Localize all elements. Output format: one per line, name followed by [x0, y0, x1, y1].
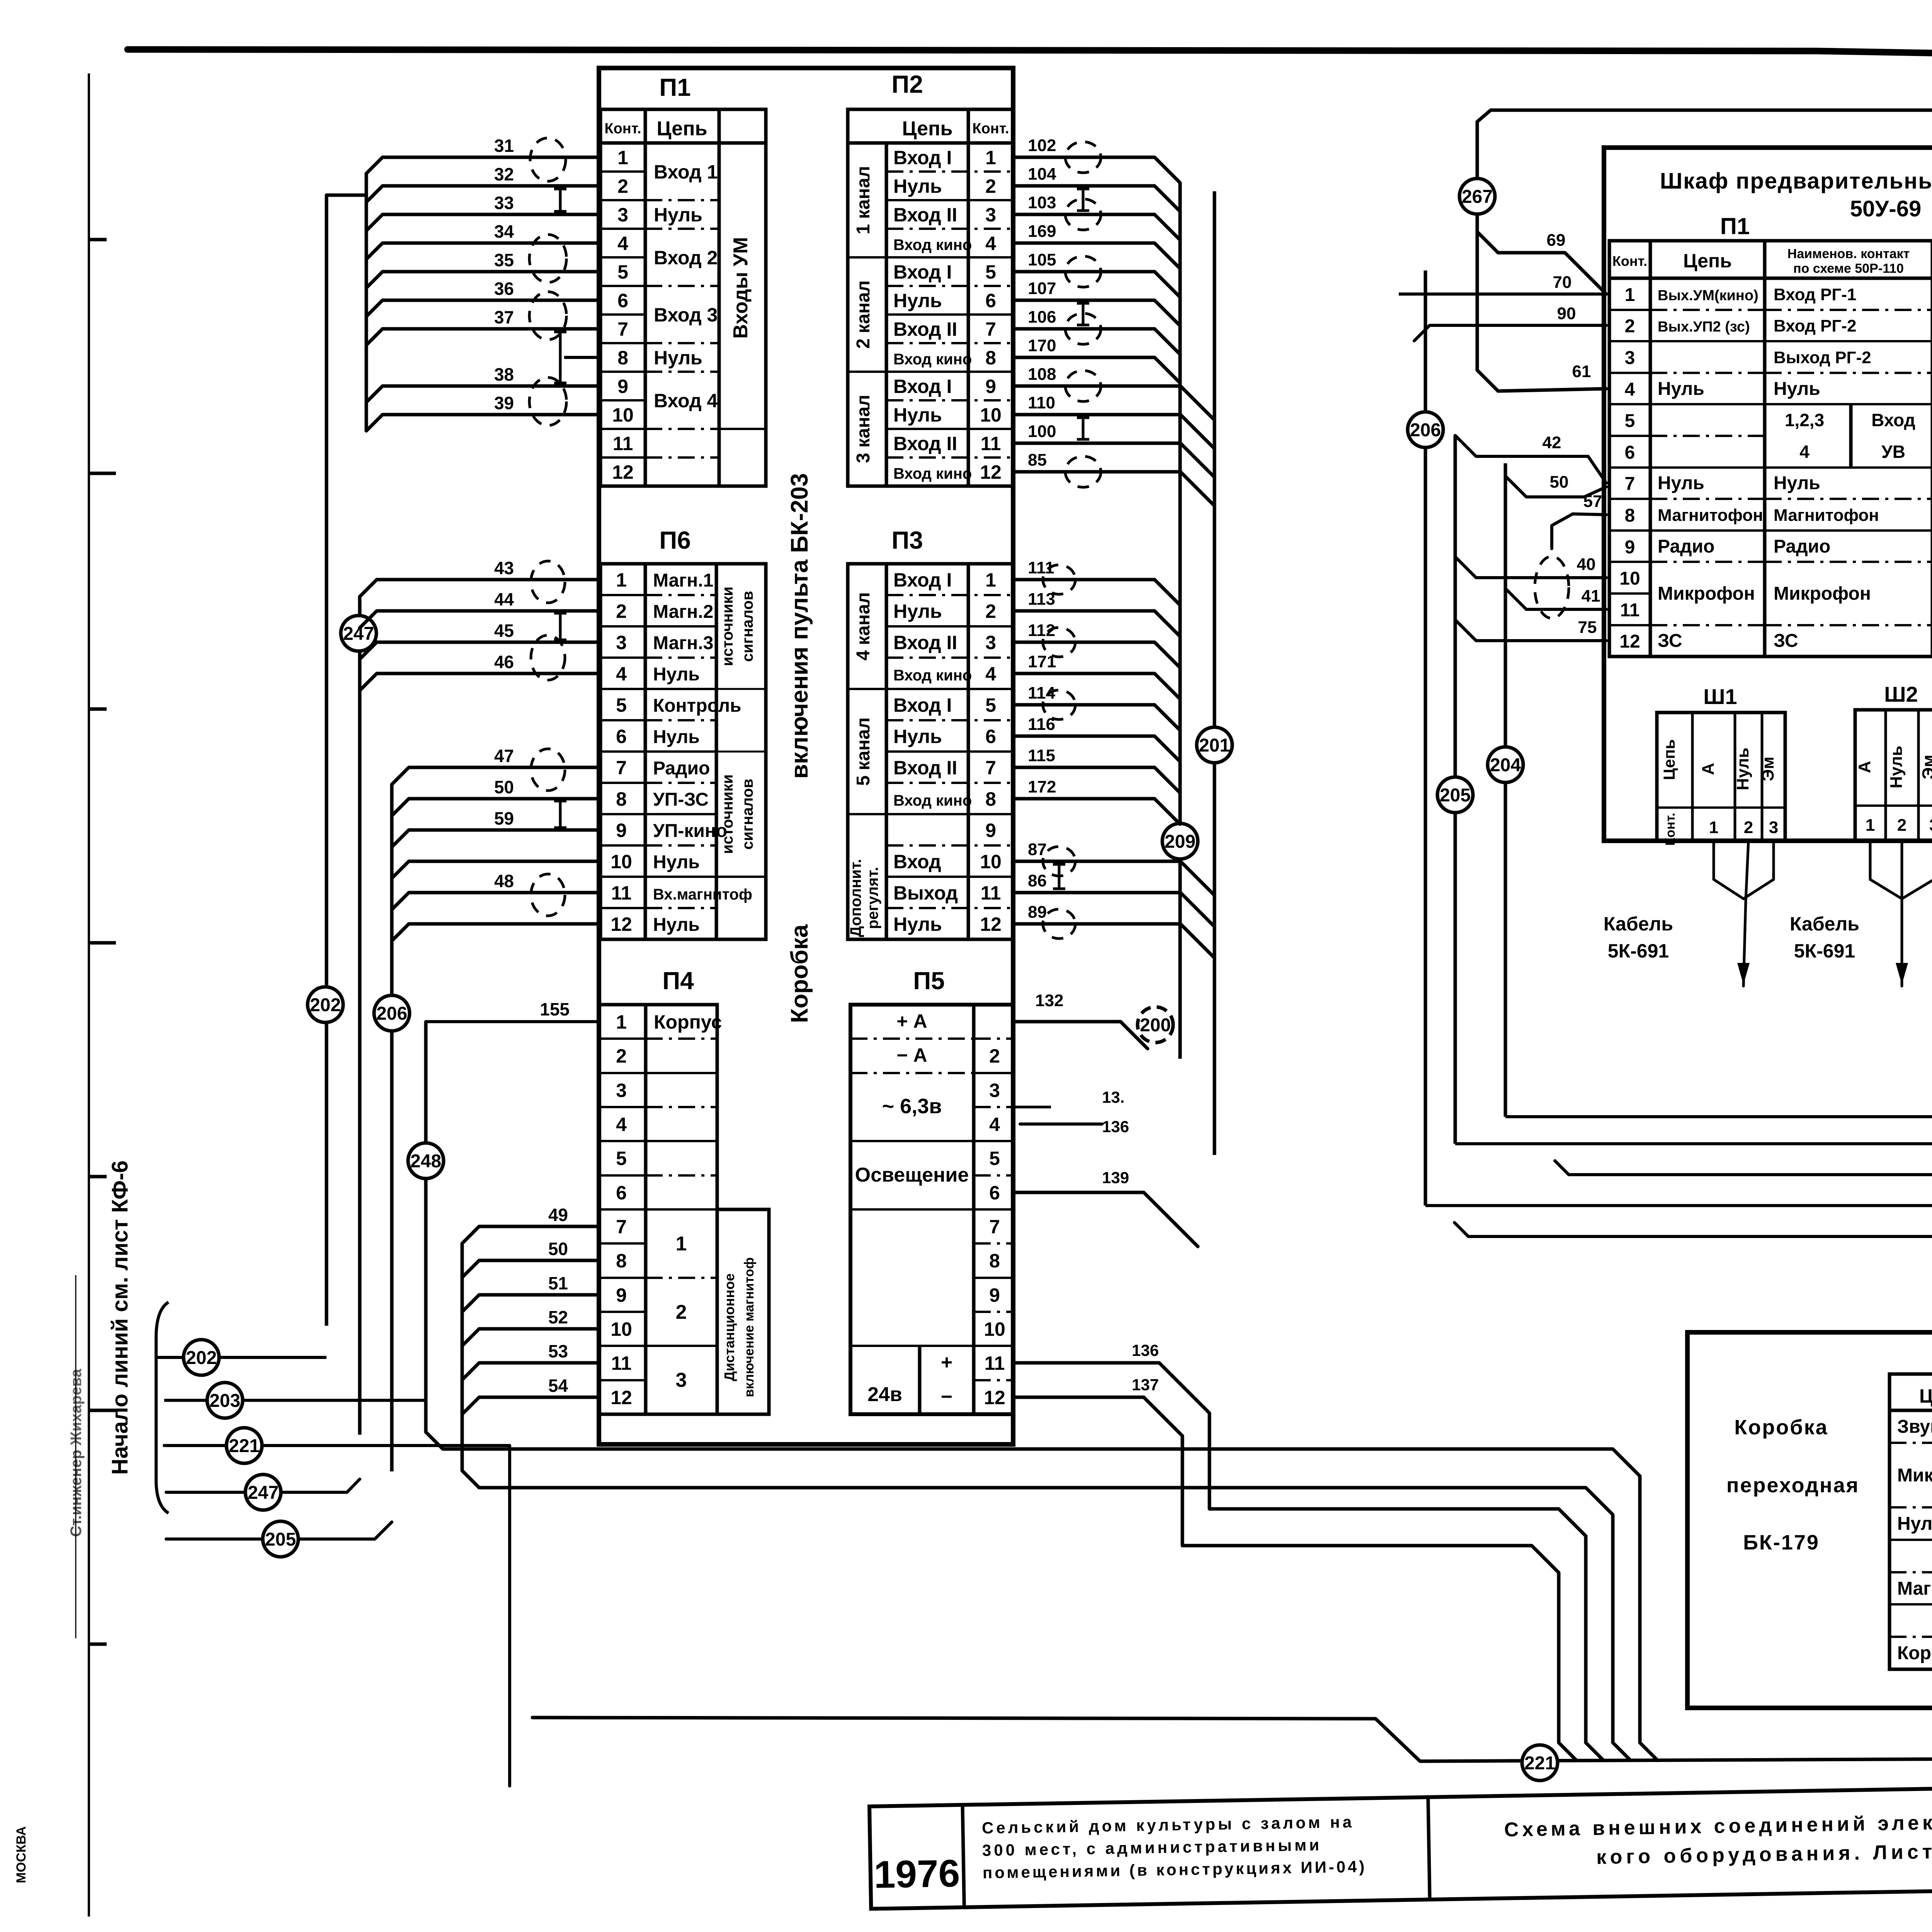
- svg-text:10: 10: [611, 1318, 632, 1340]
- svg-text:11: 11: [611, 1352, 632, 1374]
- svg-text:59: 59: [494, 808, 514, 828]
- svg-text:Корпус: Корпус: [1897, 1643, 1932, 1663]
- svg-text:Вх.магнитоф: Вх.магнитоф: [653, 886, 752, 903]
- svg-text:П3: П3: [891, 526, 923, 554]
- wire 46 to П6 row 4: [360, 673, 600, 690]
- svg-text:155: 155: [540, 999, 570, 1019]
- wire 41 to шкаф П1 row11: [1505, 588, 1606, 609]
- wire 170 from П2 row 8: [1013, 357, 1180, 383]
- svg-text:43: 43: [494, 558, 514, 578]
- svg-text:170: 170: [1028, 336, 1056, 355]
- vertical wire with node 204 (шкаф): [1504, 463, 1507, 1117]
- cable marker on wires 40-41: [1535, 556, 1569, 618]
- svg-text:2: 2: [1897, 816, 1906, 835]
- wire 155 to П4 row1 and bus B4: [426, 1020, 599, 1023]
- svg-text:204: 204: [1490, 755, 1521, 776]
- svg-text:регулят.: регулят.: [864, 867, 881, 929]
- svg-text:6: 6: [989, 1182, 1000, 1204]
- svg-text:6: 6: [616, 1182, 627, 1204]
- svg-text:МОСКВА: МОСКВА: [14, 1826, 29, 1883]
- svg-text:31: 31: [494, 136, 514, 156]
- svg-text:Коробка: Коробка: [786, 924, 813, 1023]
- svg-text:источники: источники: [719, 587, 736, 666]
- svg-text:6: 6: [985, 290, 996, 311]
- svg-text:Микрофон: Микрофон: [1658, 583, 1755, 604]
- svg-text:Нуль: Нуль: [1658, 473, 1704, 493]
- cable markers on П3 wires: [1043, 565, 1075, 594]
- wire bus B3 down to line 205: [390, 785, 394, 1471]
- svg-text:2: 2: [985, 175, 996, 197]
- svg-text:3: 3: [676, 1369, 687, 1391]
- box шкаф предварительных усилителей 50У-69: [1604, 148, 1932, 841]
- svg-text:Дистанционное: Дистанционное: [721, 1274, 737, 1381]
- svg-text:Радио: Радио: [653, 758, 710, 779]
- wire 53 to П4 row 11: [462, 1363, 599, 1380]
- wire 108 from П2 row 9: [1013, 386, 1214, 420]
- svg-text:Вход 2: Вход 2: [654, 247, 718, 269]
- svg-text:5: 5: [989, 1148, 1000, 1169]
- wire 57 to шкаф П1 row8: [1552, 514, 1606, 549]
- svg-text:267: 267: [1462, 187, 1493, 207]
- svg-text:7: 7: [617, 318, 628, 340]
- svg-text:П5: П5: [913, 967, 945, 995]
- svg-text:12: 12: [1619, 631, 1640, 652]
- svg-text:Вход 1: Вход 1: [654, 161, 718, 183]
- svg-text:УВ: УВ: [1881, 442, 1905, 462]
- svg-text:8: 8: [617, 347, 628, 369]
- svg-text:Корпус: Корпус: [654, 1011, 722, 1033]
- svg-text:116: 116: [1028, 715, 1055, 734]
- svg-text:70: 70: [1553, 273, 1572, 292]
- svg-text:Нуль: Нуль: [1774, 379, 1820, 399]
- svg-text:11: 11: [981, 433, 1001, 454]
- svg-text:1976: 1976: [874, 1852, 960, 1896]
- svg-text:5: 5: [617, 261, 628, 283]
- svg-text:7: 7: [616, 757, 627, 779]
- wire 45 to П6 row 3: [360, 642, 600, 659]
- svg-text:Вход II: Вход II: [893, 632, 957, 653]
- cable 5К-691 from Ш2: [1870, 841, 1902, 899]
- svg-text:−: −: [941, 1386, 952, 1408]
- vertical wire with node 206 (шкаф): [1424, 270, 1427, 1206]
- svg-text:247: 247: [248, 1483, 279, 1503]
- svg-text:Нуль: Нуль: [893, 175, 942, 197]
- sub cell Вход УВ rows 5-6: [1849, 404, 1853, 468]
- svg-text:2: 2: [616, 1045, 627, 1067]
- svg-text:2 канал: 2 канал: [853, 281, 874, 349]
- svg-text:9: 9: [989, 1284, 1000, 1306]
- svg-text:8: 8: [989, 1250, 1000, 1272]
- svg-text:ЗС: ЗС: [1774, 631, 1798, 651]
- cable markers on П2 wires: [1065, 142, 1101, 173]
- svg-text:5: 5: [1625, 411, 1635, 431]
- svg-text:8: 8: [985, 788, 996, 810]
- wire 247 horizontal: [166, 1479, 360, 1492]
- svg-text:75: 75: [1578, 618, 1597, 637]
- wire 69 to шкаф П1 row1: [1477, 232, 1606, 294]
- svg-text:6: 6: [1625, 442, 1635, 463]
- svg-text:3: 3: [985, 204, 996, 226]
- svg-text:7: 7: [1625, 474, 1635, 494]
- svg-text:104: 104: [1028, 165, 1056, 184]
- svg-text:3: 3: [1929, 816, 1932, 835]
- svg-text:12: 12: [980, 913, 1002, 935]
- wire 100 from П2 row 11: [1013, 443, 1214, 477]
- svg-text:2: 2: [676, 1301, 687, 1323]
- wire 90 to шкаф П1 row2: [1414, 325, 1606, 341]
- svg-text:2: 2: [617, 175, 628, 197]
- svg-text:6: 6: [985, 726, 996, 747]
- wire 169 from П2 row 4: [1013, 243, 1180, 269]
- svg-text:7: 7: [985, 757, 996, 779]
- svg-text:100: 100: [1028, 422, 1056, 441]
- wire 110 from П2 row 10: [1013, 415, 1214, 449]
- svg-text:Нуль: Нуль: [893, 404, 942, 426]
- svg-text:Освещение: Освещение: [855, 1164, 969, 1186]
- svg-text:2: 2: [1744, 818, 1753, 837]
- svg-text:переходная: переходная: [1726, 1474, 1859, 1497]
- wire 136 from П5 row 11: [1013, 1363, 1604, 1760]
- svg-text:3: 3: [616, 1080, 627, 1101]
- svg-text:Радио: Радио: [1658, 536, 1714, 557]
- wire 107 from П2 row 6: [1013, 300, 1180, 326]
- svg-text:7: 7: [616, 1216, 627, 1238]
- svg-text:1: 1: [616, 1011, 627, 1033]
- svg-text:50: 50: [548, 1239, 568, 1259]
- svg-text:Вход I: Вход I: [893, 569, 952, 591]
- wire 51 to П4 row 9: [462, 1295, 599, 1312]
- svg-text:11: 11: [981, 882, 1001, 904]
- svg-text:9: 9: [616, 820, 627, 841]
- svg-text:Нуль: Нуль: [1887, 746, 1906, 789]
- svg-text:107: 107: [1028, 279, 1056, 298]
- svg-text:136: 136: [1132, 1341, 1159, 1359]
- svg-text:Микрофон: Микрофон: [1774, 583, 1871, 604]
- wire 105 from П2 row 5: [1013, 272, 1180, 297]
- svg-text:1: 1: [1866, 816, 1875, 835]
- wire 54 to П4 row 12: [462, 1397, 599, 1414]
- svg-text:37: 37: [494, 307, 514, 327]
- svg-text:42: 42: [1543, 433, 1561, 452]
- svg-text:4: 4: [617, 233, 628, 254]
- svg-text:90: 90: [1557, 304, 1576, 323]
- svg-text:221: 221: [229, 1436, 260, 1456]
- svg-text:11: 11: [1620, 600, 1640, 621]
- svg-text:7: 7: [985, 318, 996, 340]
- wire bus B1 down to line 202: [327, 194, 366, 197]
- svg-text:БК-179: БК-179: [1743, 1531, 1820, 1554]
- svg-text:Нуль: Нуль: [893, 726, 942, 747]
- wire 44 to П6 row 2: [360, 611, 600, 628]
- long wire 209: [1455, 1142, 1932, 1145]
- wire 50 to шкаф П1 row7: [1505, 476, 1606, 497]
- title block: [869, 1777, 1932, 1909]
- svg-text:Нуль: Нуль: [653, 852, 700, 872]
- wire 102 from П2 row 1: [1013, 157, 1180, 183]
- wire 205 horizontal: [166, 1522, 392, 1539]
- svg-text:3: 3: [1625, 348, 1635, 368]
- svg-text:1 канал: 1 канал: [853, 166, 874, 235]
- svg-text:61: 61: [1572, 362, 1591, 381]
- svg-text:12: 12: [611, 913, 632, 935]
- svg-text:+ А: + А: [896, 1010, 927, 1032]
- svg-text:38: 38: [494, 364, 514, 384]
- svg-text:205: 205: [1440, 785, 1471, 806]
- svg-text:137: 137: [1132, 1376, 1159, 1394]
- svg-text:9: 9: [616, 1284, 627, 1306]
- svg-text:П1: П1: [1720, 213, 1750, 239]
- svg-text:Вход I: Вход I: [893, 147, 952, 168]
- svg-text:47: 47: [494, 746, 514, 766]
- svg-text:Вход РГ-1: Вход РГ-1: [1774, 285, 1856, 304]
- svg-text:115: 115: [1028, 746, 1055, 765]
- long wire 204: [1505, 1115, 1932, 1118]
- wire 43 to П6 row 1: [360, 580, 600, 597]
- svg-text:Коробка: Коробка: [1734, 1416, 1828, 1439]
- svg-text:Конт.: Конт.: [1663, 813, 1678, 845]
- wire 50 to П6 row 8: [392, 799, 600, 816]
- svg-text:10: 10: [984, 1318, 1005, 1340]
- svg-text:4: 4: [616, 663, 627, 685]
- wire 132 from П5 row1: [1013, 1022, 1148, 1049]
- wire 48 to П6 row 11: [392, 893, 600, 910]
- wire 202 horizontal: [158, 1356, 327, 1359]
- wire 171 from П3 row 4: [1013, 673, 1180, 699]
- svg-text:209: 209: [1165, 832, 1196, 852]
- svg-text:Нуль: Нуль: [653, 915, 700, 935]
- svg-text:Вход I: Вход I: [893, 694, 952, 716]
- dashed node 200: [1138, 1007, 1173, 1043]
- svg-text:10: 10: [980, 404, 1002, 426]
- svg-text:5 канал: 5 канал: [853, 718, 874, 786]
- svg-text:35: 35: [494, 250, 514, 270]
- long wire 208: [1555, 1161, 1932, 1175]
- svg-text:Вых.УМ(кино): Вых.УМ(кино): [1658, 287, 1759, 304]
- svg-text:9: 9: [985, 376, 996, 397]
- wire 137 from П5 row 12: [1013, 1397, 1577, 1760]
- svg-text:Магн.1: Магн.1: [653, 570, 713, 591]
- box коробка переходная БК-179: [1687, 1332, 1932, 1708]
- svg-text:Вход II: Вход II: [893, 204, 957, 226]
- wire bus to П1 rows: [365, 173, 368, 432]
- wire 87 from П3 row 10: [1013, 861, 1214, 895]
- svg-text:2: 2: [1625, 316, 1635, 337]
- svg-text:Конт.: Конт.: [1612, 253, 1647, 269]
- wire 104 from П2 row 2: [1013, 186, 1180, 211]
- svg-text:Вход II: Вход II: [893, 433, 957, 454]
- svg-text:Цепь: Цепь: [1683, 250, 1732, 272]
- svg-text:А: А: [1699, 763, 1718, 775]
- svg-text:85: 85: [1028, 451, 1047, 469]
- svg-text:36: 36: [494, 279, 514, 299]
- svg-text:А: А: [1855, 761, 1874, 773]
- svg-text:8: 8: [1625, 505, 1635, 526]
- svg-text:10: 10: [612, 404, 634, 426]
- wire from B4 to lower right: [426, 1432, 1658, 1760]
- svg-text:3: 3: [617, 204, 628, 226]
- svg-text:24в: 24в: [867, 1383, 902, 1406]
- svg-text:46: 46: [494, 652, 514, 672]
- svg-text:Вых.УП2 (зс): Вых.УП2 (зс): [1658, 319, 1750, 335]
- svg-text:34: 34: [494, 221, 514, 241]
- svg-text:Вход: Вход: [893, 851, 941, 872]
- svg-text:Вход II: Вход II: [893, 757, 957, 779]
- svg-text:Эм: Эм: [1759, 757, 1777, 781]
- svg-text:Магнитофон: Магнитофон: [1658, 506, 1763, 525]
- svg-text:сигналов: сигналов: [739, 779, 756, 850]
- wire 89 from П3 row 12: [1013, 924, 1214, 958]
- sheet top border: [128, 49, 1932, 64]
- wire 31 to П1 row 1: [366, 157, 600, 173]
- wire from B5 to lower right: [462, 1471, 1631, 1760]
- svg-text:41: 41: [1582, 587, 1600, 605]
- vertical wire with node 205 (шкаф): [1454, 435, 1457, 1144]
- wire 113 from П3 row 2: [1013, 611, 1180, 636]
- svg-text:Микрофон: Микрофон: [1897, 1465, 1932, 1486]
- svg-text:Шкаф предварительных усилит: Шкаф предварительных усилителей: [1660, 168, 1932, 194]
- wire 42 to шкаф П1 row7: [1455, 435, 1606, 483]
- svg-text:1: 1: [617, 147, 628, 168]
- svg-text:Нуль: Нуль: [653, 664, 700, 685]
- wire 179 from П5 row 6: [1013, 1192, 1198, 1247]
- svg-text:44: 44: [494, 589, 514, 609]
- svg-text:Выход РГ-2: Выход РГ-2: [1774, 348, 1871, 367]
- svg-text:87: 87: [1028, 840, 1047, 859]
- svg-text:4: 4: [989, 1114, 1000, 1135]
- svg-text:203: 203: [209, 1391, 240, 1411]
- svg-text:50: 50: [1550, 473, 1569, 492]
- svg-text:132: 132: [1035, 991, 1063, 1010]
- svg-text:106: 106: [1028, 308, 1056, 327]
- cable marker ellipses on П1 wires: [530, 138, 566, 181]
- svg-text:12: 12: [611, 1387, 632, 1408]
- svg-text:113: 113: [1028, 590, 1055, 609]
- wire 103 from П2 row 3: [1013, 214, 1180, 240]
- svg-text:Вход II: Вход II: [893, 318, 957, 340]
- svg-text:Контроль: Контроль: [653, 696, 742, 716]
- svg-text:12: 12: [612, 461, 634, 483]
- svg-text:П2: П2: [891, 70, 923, 98]
- wire 40 to шкаф П1 row10: [1455, 557, 1606, 578]
- svg-text:172: 172: [1028, 777, 1056, 796]
- long wire 211: [1425, 1204, 1932, 1207]
- wire 172 from П3 row 8: [1013, 799, 1180, 824]
- svg-text:Кабель: Кабель: [1604, 913, 1673, 935]
- svg-text:5К-691: 5К-691: [1794, 940, 1855, 962]
- svg-text:51: 51: [548, 1273, 568, 1293]
- svg-text:1: 1: [676, 1233, 687, 1255]
- svg-text:Нуль: Нуль: [654, 204, 702, 226]
- svg-text:включения пульта БК-203: включения пульта БК-203: [786, 473, 813, 779]
- svg-text:3: 3: [989, 1080, 1000, 1101]
- svg-text:1: 1: [616, 569, 627, 591]
- svg-text:108: 108: [1028, 365, 1056, 384]
- svg-text:Дополнит.: Дополнит.: [847, 859, 864, 937]
- wire 114 from П3 row 5: [1013, 705, 1180, 730]
- svg-text:139: 139: [1102, 1168, 1129, 1187]
- svg-text:4: 4: [985, 233, 996, 254]
- svg-text:Ш1: Ш1: [1703, 684, 1737, 709]
- svg-text:Входы УМ: Входы УМ: [730, 237, 752, 338]
- wire 75 to шкаф П1 row12: [1455, 620, 1606, 641]
- svg-text:Вход кино: Вход кино: [893, 792, 972, 809]
- wire 47 to П6 row 7: [392, 767, 600, 784]
- svg-text:53: 53: [548, 1341, 568, 1361]
- svg-text:3: 3: [985, 632, 996, 653]
- svg-text:86: 86: [1028, 871, 1047, 890]
- svg-text:89: 89: [1028, 903, 1047, 922]
- vertical bus from П2 lower wires (node 201): [1213, 191, 1216, 1155]
- svg-text:Вход кино: Вход кино: [893, 236, 972, 253]
- wire 33 to П1 row 3: [366, 214, 600, 231]
- wires 13/136 from П5 rows 3-4: [1013, 1106, 1051, 1109]
- svg-text:Нуль: Нуль: [1733, 748, 1752, 791]
- left brace for line group: [156, 1302, 168, 1513]
- svg-text:Начало линий см. лист КФ-6: Начало линий см. лист КФ-6: [107, 1160, 133, 1475]
- box коробка включения пульта БК-203: [599, 68, 1013, 1444]
- circled node 206 upper: [374, 995, 410, 1031]
- svg-text:50: 50: [494, 777, 514, 797]
- svg-text:Нуль: Нуль: [893, 600, 942, 622]
- svg-text:4: 4: [616, 1114, 627, 1135]
- svg-text:Цепь: Цепь: [1660, 739, 1678, 780]
- svg-text:+: +: [941, 1351, 952, 1374]
- svg-text:П4: П4: [662, 967, 694, 995]
- svg-text:3: 3: [616, 632, 627, 653]
- svg-text:6: 6: [616, 726, 627, 747]
- circled node 248: [408, 1143, 444, 1179]
- cable markers on П6 wires: [531, 561, 565, 603]
- svg-text:248: 248: [410, 1151, 441, 1172]
- svg-text:169: 169: [1028, 222, 1056, 241]
- svg-text:102: 102: [1028, 136, 1056, 155]
- wire 35 to П1 row 5: [366, 272, 600, 288]
- svg-text:Вход кино: Вход кино: [893, 667, 972, 684]
- wire 52 to П4 row 10: [462, 1329, 599, 1346]
- wire 34 to П1 row 4: [366, 243, 600, 259]
- svg-text:Цепь: Цепь: [1919, 1385, 1932, 1407]
- svg-text:11: 11: [985, 1352, 1005, 1374]
- svg-text:~ 6,3в: ~ 6,3в: [882, 1095, 942, 1118]
- svg-text:50У-69: 50У-69: [1850, 196, 1921, 221]
- svg-text:Вход I: Вход I: [893, 261, 952, 283]
- svg-text:7: 7: [989, 1216, 1000, 1238]
- svg-text:4: 4: [1799, 442, 1810, 462]
- svg-text:4: 4: [985, 663, 996, 685]
- svg-text:110: 110: [1028, 393, 1055, 412]
- wire 59 to П6 row 9: [392, 830, 600, 847]
- svg-text:10: 10: [611, 851, 632, 872]
- svg-text:8: 8: [616, 788, 627, 810]
- svg-text:сигналов: сигналов: [739, 591, 756, 662]
- svg-text:32: 32: [494, 164, 514, 184]
- svg-text:33: 33: [494, 193, 514, 213]
- svg-text:1: 1: [985, 569, 996, 591]
- svg-text:3 канал: 3 канал: [853, 395, 874, 463]
- svg-text:11: 11: [611, 882, 632, 904]
- svg-text:Вход: Вход: [1871, 410, 1915, 430]
- svg-text:П6: П6: [659, 526, 691, 554]
- svg-text:49: 49: [548, 1205, 568, 1225]
- svg-text:Вход I: Вход I: [893, 376, 952, 397]
- svg-text:54: 54: [548, 1376, 568, 1396]
- wire 85 from П2 row 12: [1013, 472, 1214, 506]
- svg-text:5К-691: 5К-691: [1608, 940, 1669, 962]
- wire 70 to шкаф П1 row1: [1399, 293, 1606, 296]
- bottom long wire with node 221: [532, 1718, 1932, 1761]
- svg-text:ЗС: ЗС: [1658, 631, 1682, 651]
- svg-text:5: 5: [616, 1148, 627, 1169]
